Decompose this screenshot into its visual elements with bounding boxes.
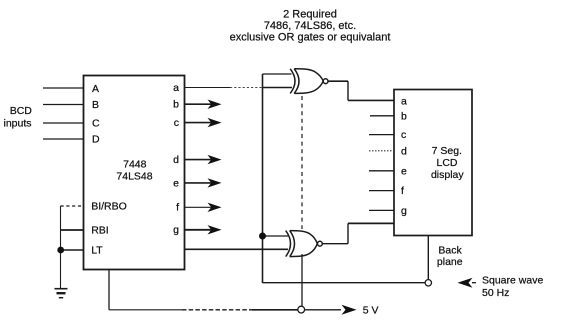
svg-text:d: d bbox=[401, 145, 407, 157]
svg-text:A: A bbox=[92, 83, 99, 95]
svg-text:f: f bbox=[176, 202, 179, 214]
svg-text:g: g bbox=[401, 205, 407, 217]
svg-text:a: a bbox=[173, 82, 179, 94]
svg-text:5 V: 5 V bbox=[363, 304, 379, 316]
svg-text:BI/RBO: BI/RBO bbox=[91, 201, 127, 213]
svg-text:50 Hz: 50 Hz bbox=[482, 287, 509, 299]
svg-text:LCD: LCD bbox=[436, 157, 457, 169]
svg-text:Square wave: Square wave bbox=[482, 274, 543, 286]
svg-text:d: d bbox=[173, 154, 179, 166]
svg-text:exclusive OR gates or equivala: exclusive OR gates or equivalant bbox=[230, 32, 391, 44]
svg-text:Back: Back bbox=[438, 244, 462, 256]
svg-text:D: D bbox=[92, 134, 100, 146]
svg-text:C: C bbox=[92, 118, 100, 130]
svg-text:b: b bbox=[401, 110, 407, 122]
svg-text:plane: plane bbox=[437, 256, 463, 268]
svg-text:display: display bbox=[431, 169, 464, 181]
svg-text:2 Required: 2 Required bbox=[283, 8, 337, 20]
svg-text:RBI: RBI bbox=[91, 225, 109, 237]
svg-text:e: e bbox=[401, 165, 407, 177]
svg-text:74LS48: 74LS48 bbox=[116, 171, 152, 183]
svg-text:b: b bbox=[173, 99, 179, 111]
svg-text:7448: 7448 bbox=[123, 159, 147, 171]
svg-text:c: c bbox=[174, 117, 179, 129]
svg-text:7 Seg.: 7 Seg. bbox=[432, 145, 462, 157]
svg-text:B: B bbox=[92, 99, 99, 111]
svg-text:c: c bbox=[401, 129, 406, 141]
svg-text:f: f bbox=[401, 185, 404, 197]
svg-text:7486, 74LS86, etc.: 7486, 74LS86, etc. bbox=[264, 20, 356, 32]
svg-text:LT: LT bbox=[91, 245, 103, 257]
svg-text:inputs: inputs bbox=[3, 117, 31, 129]
svg-text:e: e bbox=[173, 177, 179, 189]
svg-text:a: a bbox=[401, 95, 407, 107]
svg-text:g: g bbox=[173, 224, 179, 236]
svg-text:BCD: BCD bbox=[10, 105, 33, 117]
